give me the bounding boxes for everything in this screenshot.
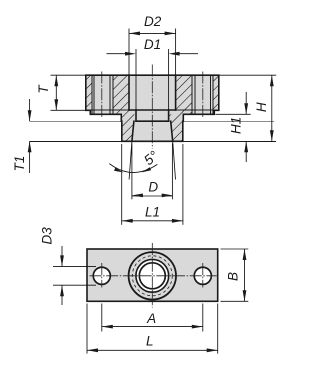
svg-text:L1: L1 [145, 205, 160, 220]
svg-text:L: L [146, 334, 154, 349]
svg-text:H: H [254, 102, 269, 112]
svg-text:D3: D3 [39, 227, 54, 245]
svg-text:T1: T1 [12, 156, 27, 172]
svg-text:A: A [146, 311, 156, 326]
svg-text:5°: 5° [141, 147, 162, 168]
svg-text:D: D [148, 179, 158, 194]
svg-text:H1: H1 [229, 117, 244, 134]
svg-text:D1: D1 [144, 37, 161, 52]
svg-text:D2: D2 [144, 14, 162, 29]
svg-text:T: T [36, 84, 51, 94]
svg-text:B: B [225, 272, 240, 281]
